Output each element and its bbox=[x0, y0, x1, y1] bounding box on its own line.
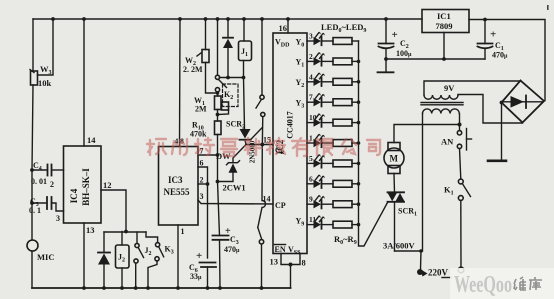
op-amp U IC4 BH-SK-1 box bbox=[64, 146, 102, 223]
IC4 pin 14 wire to rail bbox=[83, 19, 85, 146]
ground symbol below C2 bbox=[378, 59, 394, 72]
LED2 bbox=[314, 72, 334, 86]
junction dot bridge minus corner bbox=[500, 101, 504, 105]
IC3 pin 1 wire to ground bbox=[177, 225, 179, 288]
svg-text:13: 13 bbox=[270, 257, 279, 267]
svg-text:3: 3 bbox=[309, 32, 313, 41]
motor to triac wire bbox=[393, 174, 396, 193]
svg-text:2: 2 bbox=[50, 180, 54, 189]
IC2 output pin 4 wire row 2 bbox=[307, 81, 314, 83]
svg-text:7: 7 bbox=[309, 93, 313, 102]
junction dots at node 77 bbox=[226, 76, 245, 80]
resistor R7 bbox=[333, 180, 359, 187]
wire W3 wiper to top rail bbox=[38, 19, 54, 75]
transformer core bbox=[421, 103, 463, 105]
svg-text:+: + bbox=[392, 29, 398, 41]
wire reset line with hop over CP wire bbox=[258, 145, 266, 228]
capacitor C4 bbox=[32, 165, 64, 176]
IC2 output pin 11 wire row 9 bbox=[307, 224, 314, 226]
IC4 pin 12 wire bbox=[101, 190, 126, 232]
svg-text:5: 5 bbox=[309, 154, 313, 163]
node C4 tap bbox=[30, 168, 34, 172]
svg-text:IC3: IC3 bbox=[168, 175, 183, 185]
wire resistor bus to triac gate bbox=[359, 41, 388, 246]
switch K1 bbox=[458, 179, 470, 267]
K2 dashed enclosure bbox=[223, 84, 239, 107]
svg-text:IC4: IC4 bbox=[69, 188, 79, 203]
node pins 2-6 junction bbox=[206, 182, 210, 186]
IC2 output pin 5 wire row 6 bbox=[307, 162, 314, 164]
diode D2 top bbox=[223, 19, 233, 78]
regulator IC1 7809 box bbox=[422, 10, 469, 33]
node diode-J1 wire bbox=[220, 77, 244, 79]
top rail right segment from IC1 output to bridge bbox=[469, 20, 545, 101]
mains wire down to plug pin bbox=[420, 251, 423, 269]
LED7 bbox=[314, 174, 334, 188]
svg-text:NE555: NE555 bbox=[164, 187, 191, 197]
node C5 tap bbox=[30, 201, 34, 205]
junction dots on top rail bbox=[51, 17, 487, 21]
potentiometer W1 bbox=[215, 96, 229, 115]
capacitor C1 bbox=[478, 20, 493, 60]
node R10-pin7 bbox=[216, 153, 220, 157]
svg-text:IC1: IC1 bbox=[437, 11, 451, 21]
svg-text:3A/600V: 3A/600V bbox=[383, 241, 416, 251]
stop switch on reset line bbox=[256, 19, 265, 145]
scan artifact top right tick bbox=[547, 5, 549, 10]
potentiometer W3 bbox=[30, 70, 38, 86]
resistor R2 bbox=[333, 78, 359, 85]
IC2 output pin 9 wire row 8 bbox=[307, 203, 314, 205]
svg-text:14: 14 bbox=[87, 135, 96, 145]
motor top wire bbox=[394, 125, 460, 143]
svg-text:3: 3 bbox=[56, 214, 60, 223]
wire pin2 node down to C6 bbox=[207, 184, 209, 258]
IC2 output pin 1 wire row 5 bbox=[307, 142, 314, 144]
IC3 pins 4 8 wire to rail bbox=[179, 19, 182, 147]
microphone MIC bbox=[27, 240, 38, 251]
svg-text:2. 2M: 2. 2M bbox=[183, 65, 203, 74]
svg-text:470k: 470k bbox=[190, 130, 207, 139]
svg-text:M: M bbox=[390, 154, 399, 164]
svg-text:9: 9 bbox=[309, 195, 313, 204]
counter IC2 CC4017 box bbox=[273, 33, 307, 254]
junction dot row 1 on bus bbox=[357, 60, 361, 64]
LED8 bbox=[314, 195, 334, 209]
svg-text:7809: 7809 bbox=[436, 21, 453, 31]
resistor R0 bbox=[333, 38, 359, 45]
svg-text:2CW1: 2CW1 bbox=[223, 183, 246, 193]
IC2 pin 16 wire bbox=[287, 19, 289, 33]
junction dot row 5 on bus bbox=[357, 141, 361, 145]
wire MIC to ground rail bbox=[31, 251, 33, 288]
IC2 output pin 3 wire row 0 bbox=[307, 40, 314, 42]
relay contact J2 bbox=[134, 232, 144, 288]
LED9 bbox=[314, 215, 334, 229]
svg-text:4: 4 bbox=[309, 72, 313, 81]
svg-text:0. 01: 0. 01 bbox=[31, 177, 47, 186]
wire W1 bottom to R10 bbox=[217, 110, 219, 122]
motor M bbox=[384, 143, 404, 174]
IC2 output pin 7 wire row 3 bbox=[307, 101, 314, 103]
node zener junction bbox=[216, 180, 220, 184]
capacitor C6 bbox=[200, 263, 217, 289]
svg-text:8: 8 bbox=[302, 258, 306, 268]
wire SCR2 cathode to IC2 pin15 bbox=[246, 144, 273, 146]
junction dot row 6 on bus bbox=[357, 162, 361, 166]
220V underline bbox=[442, 277, 451, 279]
junction dot row 9 on bus bbox=[357, 223, 361, 227]
LED1 bbox=[314, 52, 334, 66]
wire J2 branch horizontal bbox=[104, 231, 146, 233]
resistor R6 bbox=[333, 160, 359, 167]
node W2-K2-W1 bbox=[216, 91, 220, 95]
IC2 output pin 6 wire row 7 bbox=[307, 183, 314, 185]
resistor R10 bbox=[215, 121, 222, 135]
svg-text:10k: 10k bbox=[38, 78, 52, 88]
capacitor C2 bbox=[379, 19, 394, 59]
weiku watermark glyphs bbox=[514, 277, 542, 290]
capacitor C3 bbox=[213, 236, 229, 289]
junction dot row 2 on bus bbox=[357, 80, 361, 84]
svg-text:AN: AN bbox=[441, 137, 454, 147]
junction dots on ground wire bbox=[384, 57, 446, 61]
svg-text:220V: 220V bbox=[428, 268, 449, 278]
node pin15 switch junction bbox=[260, 143, 264, 147]
wire pin7 node down bbox=[217, 155, 219, 182]
diode D1 beside relay J2 bbox=[98, 232, 110, 288]
svg-text:2: 2 bbox=[200, 176, 204, 185]
zener diode DW 2CW1 bbox=[218, 145, 247, 182]
IC1 ground pin wire bbox=[443, 33, 445, 60]
mains terminal right circle bbox=[458, 267, 464, 273]
IC2 output pin 10 wire row 4 bbox=[307, 122, 314, 124]
transformer primary winding bbox=[421, 109, 460, 251]
LED6 bbox=[314, 154, 334, 168]
triac SCR1 bbox=[388, 192, 405, 251]
wire R10 to pin7 node bbox=[217, 135, 219, 156]
svg-text:0. 1: 0. 1 bbox=[29, 206, 41, 215]
relay coil J2 bbox=[116, 232, 130, 289]
ground from bridge minus bbox=[488, 103, 506, 161]
resistor R4 bbox=[333, 119, 359, 126]
IC2 output pin 2 wire row 1 bbox=[307, 60, 314, 62]
mains plug pin left bbox=[417, 269, 428, 277]
switch K3 bbox=[146, 232, 164, 288]
red company watermark bbox=[147, 138, 380, 156]
triac bottom wire to mains terminal bbox=[395, 250, 422, 252]
junction node at J2 branch bbox=[124, 230, 128, 234]
wire W3 bottom down left column bbox=[32, 85, 33, 240]
svg-text:+: + bbox=[490, 29, 496, 41]
resistor R3 bbox=[333, 99, 359, 106]
wire left vertical from rail to W3 bbox=[32, 19, 34, 71]
thyristor SCR2 bbox=[240, 78, 263, 145]
svg-text:14: 14 bbox=[263, 195, 271, 204]
svg-text:EN: EN bbox=[275, 245, 286, 254]
svg-text:13: 13 bbox=[86, 225, 95, 235]
svg-text:WeeQoo: WeeQoo bbox=[454, 272, 512, 298]
svg-text:1: 1 bbox=[181, 227, 185, 236]
junction dot primary-AN node bbox=[458, 123, 462, 127]
WeeQoo watermark box bbox=[450, 268, 554, 299]
svg-text:3: 3 bbox=[200, 192, 204, 201]
resistor R9 bbox=[333, 221, 359, 228]
primary and triac junction bbox=[419, 249, 423, 253]
pushbutton AN bbox=[457, 125, 471, 180]
node W1 wiper junction bbox=[216, 113, 220, 117]
svg-text:6: 6 bbox=[200, 159, 204, 168]
junction dot row 3 on bus bbox=[357, 100, 361, 104]
resistor R1 bbox=[333, 58, 359, 65]
svg-text:2M: 2M bbox=[195, 105, 207, 114]
wire node to C3 bbox=[218, 182, 220, 236]
pins 13 and 8 ground bracket bbox=[281, 254, 300, 289]
svg-text:12: 12 bbox=[103, 180, 112, 190]
svg-text:+: + bbox=[196, 250, 202, 262]
IC3 pin 6 wire bbox=[198, 167, 208, 184]
LED0 bbox=[314, 32, 334, 46]
svg-text:MIC: MIC bbox=[37, 252, 54, 262]
top power rail bbox=[33, 18, 422, 20]
IC3 pin 3 wire to IC2 CP bbox=[198, 200, 273, 204]
resistor R5 bbox=[333, 140, 359, 147]
bottom ground rail bbox=[32, 287, 291, 289]
LED4 bbox=[314, 113, 334, 127]
IC3 pin 7 wire bbox=[198, 154, 218, 156]
IC4 pin 13 wire to ground bbox=[83, 223, 85, 288]
svg-text:CP: CP bbox=[275, 201, 286, 210]
resistor R8 bbox=[333, 201, 359, 208]
IC3 pin 2 wire bbox=[198, 183, 208, 185]
junction dot row 8 on bus bbox=[357, 202, 361, 206]
transformer secondary winding bbox=[424, 81, 521, 99]
potentiometer W2 bbox=[197, 19, 218, 93]
relay coil J1 bbox=[239, 19, 252, 78]
EN enable pin label with overline bbox=[275, 245, 286, 255]
bridge rectifier bbox=[502, 81, 545, 123]
junction dot row 7 on bus bbox=[357, 182, 361, 186]
junction dot row 4 on bus bbox=[357, 121, 361, 125]
svg-text:16: 16 bbox=[279, 23, 288, 33]
svg-text:2: 2 bbox=[309, 52, 313, 61]
ground wire under regulator bbox=[386, 58, 485, 60]
svg-text:9V: 9V bbox=[444, 83, 455, 93]
relay contact K2 bbox=[215, 19, 226, 96]
svg-text:CC4017: CC4017 bbox=[286, 111, 295, 139]
LED5 bbox=[314, 134, 334, 148]
lower switch blade and terminal bbox=[258, 228, 264, 289]
secondary to bridge AC wire bbox=[458, 95, 523, 124]
svg-text:6: 6 bbox=[309, 174, 313, 183]
junction dots on ground rail bbox=[82, 286, 263, 290]
LED3 bbox=[314, 93, 334, 107]
capacitor C5 bbox=[32, 197, 64, 211]
timer IC3 NE555 box bbox=[159, 147, 199, 226]
svg-text:BH–SK–I: BH–SK–I bbox=[81, 168, 91, 206]
